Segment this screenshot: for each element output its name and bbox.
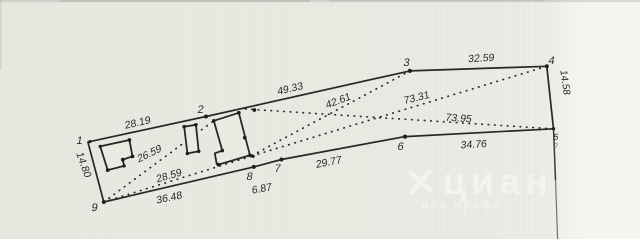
svg-text:8: 8	[245, 171, 253, 183]
svg-text:29.77: 29.77	[316, 154, 343, 171]
svg-text:36.48: 36.48	[156, 189, 183, 207]
svg-text:73.95: 73.95	[444, 112, 473, 126]
svg-text:34.76: 34.76	[460, 138, 487, 151]
svg-text:6.87: 6.87	[252, 181, 273, 197]
svg-text:7: 7	[273, 163, 281, 175]
svg-text:32.59: 32.59	[468, 52, 495, 65]
svg-text:14.58: 14.58	[557, 70, 572, 95]
svg-text:2: 2	[553, 143, 558, 150]
svg-text:2: 2	[196, 104, 204, 116]
svg-text:9: 9	[90, 202, 98, 214]
svg-text:5: 5	[553, 132, 560, 142]
svg-text:3: 3	[402, 57, 410, 69]
svg-text:6: 6	[396, 141, 404, 153]
svg-text:1: 1	[75, 135, 83, 147]
svg-text:73.31: 73.31	[403, 89, 430, 107]
svg-text:28.59: 28.59	[156, 166, 183, 185]
svg-text:4: 4	[547, 55, 555, 67]
svg-text:26.59: 26.59	[137, 142, 163, 166]
svg-text:42.61: 42.61	[325, 90, 352, 111]
